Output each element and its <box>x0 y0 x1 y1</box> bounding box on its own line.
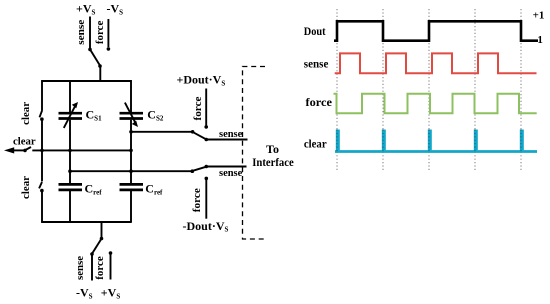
svg-text:+VS: +VS <box>76 1 96 16</box>
grid line t3 <box>428 9 430 172</box>
wire box left edge upper <box>41 80 43 110</box>
svg-text:-VS: -VS <box>107 1 124 16</box>
switch lower sense blade <box>193 167 206 171</box>
svg-text:sense: sense <box>219 128 242 140</box>
svg-text:CS1: CS1 <box>86 108 103 123</box>
switch clear upper-left <box>40 110 43 117</box>
svg-text:force: force <box>192 96 204 120</box>
clear output arrow <box>4 147 14 153</box>
wire box top edge <box>41 80 132 82</box>
grid line t2 <box>382 9 384 172</box>
waveform force <box>334 94 537 113</box>
capacitor CS1 <box>59 112 83 115</box>
wire lower sense out <box>206 166 246 168</box>
node column1 lower-wire <box>68 169 72 173</box>
svg-text:+VS: +VS <box>101 285 121 300</box>
wire upper force line <box>204 125 208 129</box>
clear pulse t2 <box>382 130 386 151</box>
timing diagram <box>304 9 545 172</box>
svg-text:force: force <box>94 21 106 45</box>
wire column2 upper <box>130 80 132 112</box>
node CS2 bottom <box>129 130 133 134</box>
wire column2 mid <box>130 120 132 183</box>
wire lower force line <box>205 177 209 181</box>
node column2 lower-wire <box>129 169 133 173</box>
svg-text:-Dout·VS: -Dout·VS <box>183 219 229 234</box>
wire box left edge lower <box>41 191 43 223</box>
switch upper sense blade <box>193 132 206 139</box>
clear pulse t3 <box>428 130 432 151</box>
svg-text:To: To <box>266 142 279 156</box>
svg-text:-VS: -VS <box>76 285 93 300</box>
svg-text:Cref: Cref <box>85 182 103 197</box>
wire top switch to box <box>99 66 101 82</box>
clear pulse t4 <box>474 130 478 151</box>
wire box left edge middle <box>41 119 43 181</box>
svg-text:Interface: Interface <box>252 155 294 169</box>
capacitor Cref right <box>120 183 144 186</box>
wire -VS force throw <box>107 19 109 47</box>
switch S1 top SPDT blade <box>88 48 92 52</box>
wire column2 lower <box>130 191 132 222</box>
waveform clear baseline <box>335 150 537 153</box>
svg-text:sense: sense <box>74 256 86 280</box>
wire upper sense out <box>206 139 247 141</box>
svg-text:sense: sense <box>75 20 87 45</box>
node at left edge midline <box>40 149 44 153</box>
clear pulse t5 <box>520 130 524 151</box>
wire column1 mid <box>69 120 71 183</box>
node at column2 midline <box>129 149 133 153</box>
svg-text:clear: clear <box>13 136 36 148</box>
grid line t4 <box>474 9 476 172</box>
svg-text:force: force <box>306 95 333 109</box>
svg-text:sense: sense <box>219 167 242 179</box>
svg-text:+Dout·VS: +Dout·VS <box>177 73 226 88</box>
switch clear middle <box>23 149 27 153</box>
wire upper sense feed <box>131 131 193 133</box>
node at column1 midline <box>68 149 72 153</box>
grid line t1 <box>336 9 338 172</box>
grid line t5 <box>520 9 522 172</box>
switch clear lower-left <box>39 182 42 188</box>
svg-text:sense: sense <box>304 57 329 71</box>
wire +VS force throw (bottom) <box>110 254 112 280</box>
svg-text:force: force <box>191 188 203 212</box>
dashed interface boundary <box>243 67 268 240</box>
wire box bottom edge <box>41 221 132 223</box>
clear pulse t1 <box>336 130 340 151</box>
wire clear to bridge midline <box>32 149 131 151</box>
capacitor Cref left <box>59 183 83 186</box>
wire lower sense feed <box>70 170 192 172</box>
wire +VS sense throw <box>89 17 91 49</box>
wire column1 upper <box>69 80 71 112</box>
svg-text:clear: clear <box>20 102 32 125</box>
svg-text:Cref: Cref <box>145 182 163 197</box>
svg-text:force: force <box>94 256 106 280</box>
wire column1 lower <box>69 191 71 222</box>
waveform Dout <box>334 21 538 40</box>
svg-text:clear: clear <box>304 136 327 150</box>
waveform sense <box>335 53 537 73</box>
wire box bottom to switch <box>101 222 103 238</box>
wire -VS sense throw (bottom) <box>91 255 93 281</box>
svg-text:CS2: CS2 <box>147 108 164 123</box>
svg-text:+1: +1 <box>533 10 545 22</box>
svg-text:-1: -1 <box>534 34 543 46</box>
switch S2 bottom SPDT blade <box>100 237 104 241</box>
svg-text:clear: clear <box>20 176 32 199</box>
capacitor CS2 <box>120 112 144 115</box>
svg-text:Dout: Dout <box>304 24 326 38</box>
grid overlay on clear pulses <box>337 130 521 152</box>
